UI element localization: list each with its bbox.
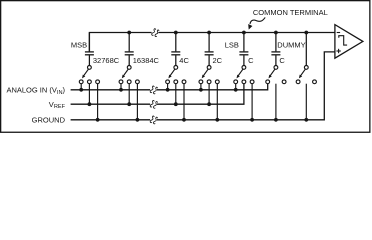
capacitor C-MSB 32768C xyxy=(85,33,94,66)
wire: analog-in bus xyxy=(71,84,268,90)
svg-text:4C: 4C xyxy=(179,56,189,65)
svg-text:2C: 2C xyxy=(213,56,223,65)
svg-text:DUMMY: DUMMY xyxy=(277,40,305,49)
switch S7 (sampling) xyxy=(296,66,316,122)
capacitor C-LSB xyxy=(239,33,248,66)
capacitor 16384C xyxy=(125,33,134,66)
switch S5 (LSB) xyxy=(234,66,254,122)
border frame xyxy=(1,1,370,133)
break on ground bus xyxy=(150,116,158,125)
svg-text:C: C xyxy=(279,56,285,65)
wire: ground bus to comparator + input xyxy=(71,52,335,120)
svg-text:MSB: MSB xyxy=(71,41,87,50)
capacitor C-dummy xyxy=(271,33,280,66)
switch S3 xyxy=(166,66,186,122)
capacitor 2C xyxy=(205,33,214,66)
break on vref bus xyxy=(150,100,158,109)
svg-text:C: C xyxy=(248,56,254,65)
svg-text:LSB: LSB xyxy=(225,41,239,50)
switch S4 xyxy=(199,66,219,122)
svg-text:GROUND: GROUND xyxy=(32,115,66,124)
annotation arrow xyxy=(250,17,265,24)
wire: sampling switch lead xyxy=(305,33,307,66)
break on common bus xyxy=(151,28,159,37)
switch S2 xyxy=(119,66,139,122)
break on analog-in bus xyxy=(150,86,158,95)
wire: vref bus xyxy=(71,84,244,105)
junction dots on common bus xyxy=(127,31,131,35)
svg-text:ANALOG IN (VIN): ANALOG IN (VIN) xyxy=(6,85,65,95)
comparator U1 xyxy=(335,25,363,59)
switch S6 (dummy) xyxy=(266,66,286,122)
switch S1 (MSB) xyxy=(79,66,99,122)
svg-text:COMMON TERMINAL: COMMON TERMINAL xyxy=(253,8,328,17)
svg-text:16384C: 16384C xyxy=(133,56,160,65)
capacitor 4C xyxy=(171,33,180,66)
wire: common terminal bus xyxy=(89,33,335,52)
svg-text:32768C: 32768C xyxy=(93,56,120,65)
